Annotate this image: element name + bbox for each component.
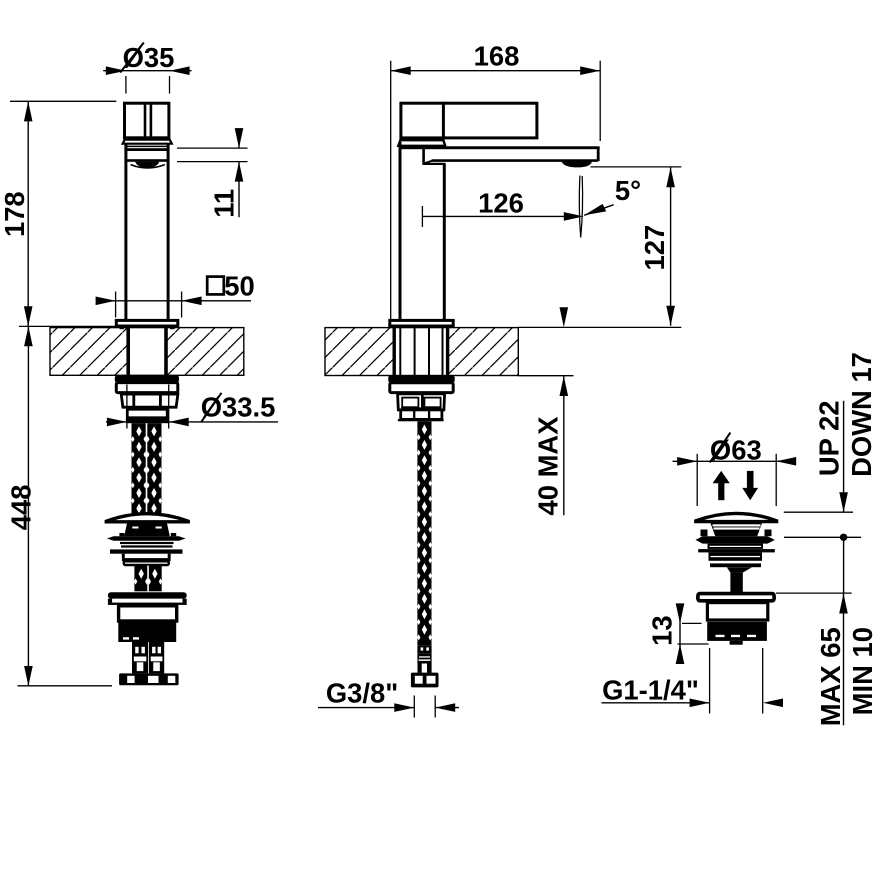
body right edge side: [443, 164, 446, 319]
svg-text:G1-1/4": G1-1/4": [602, 675, 699, 706]
hex nut window 3: [168, 676, 176, 683]
neck thin line: [125, 145, 170, 147]
40MAX top arrowhead: [560, 307, 569, 327]
178 bottom arrowhead: [24, 306, 33, 326]
countertop outline: [50, 328, 244, 376]
plug collar: [124, 523, 170, 536]
50 left extension tick: [115, 292, 117, 318]
spout slab bottom edge front: [125, 159, 170, 162]
Ø33.5 slash overstrike: [201, 393, 222, 423]
fitting ferrule: [417, 653, 431, 663]
thread mark 2: [731, 635, 740, 637]
hex bottom band: [398, 419, 444, 421]
Ø63 right arrowhead: [776, 457, 796, 466]
sink bottom extension line: [776, 592, 852, 594]
svg-text:DOWN 17: DOWN 17: [846, 352, 877, 477]
11 upper extension line: [177, 147, 248, 149]
drain threaded section side: [707, 622, 767, 641]
svg-text:UP 22: UP 22: [813, 400, 844, 476]
svg-text:MIN 10: MIN 10: [847, 627, 878, 715]
waste top flange: [107, 536, 186, 540]
Ø33.5 right arrowhead: [169, 418, 189, 427]
G1-1/4 right extension line: [762, 648, 764, 714]
448 bottom arrowhead: [24, 666, 33, 686]
waste body side right: [168, 554, 171, 559]
drain flange cap left: [108, 599, 112, 603]
13 dimension line: [679, 605, 681, 663]
braided tail section: [134, 566, 161, 592]
waste body side left: [122, 554, 125, 559]
svg-text:5°: 5°: [615, 175, 641, 206]
body right edge front: [167, 144, 170, 320]
link line to MAX dimension: [843, 541, 845, 594]
supply nut side view: [398, 394, 445, 410]
flange nut side view: [390, 383, 453, 393]
drain body cylinder: [119, 606, 177, 621]
svg-text:MAX 65: MAX 65: [815, 627, 846, 726]
11 upper arrow stem: [238, 130, 240, 148]
50 right extension tick: [181, 292, 183, 318]
svg-text:178: 178: [0, 191, 30, 237]
Ø63 left arrowhead: [677, 457, 697, 466]
rubber washer front: [115, 376, 179, 382]
collar ear right: [765, 530, 772, 537]
Ø63 dimension line: [673, 460, 794, 462]
crimp slit left: [421, 647, 424, 650]
hex collar top band: [126, 407, 169, 410]
Ø33.5 left arrowhead: [107, 418, 127, 427]
counter top extension to 127: [518, 326, 681, 328]
plug collar slit right: [156, 527, 162, 529]
5° arrowhead: [584, 204, 606, 215]
counter bottom extension to 40MAX: [518, 375, 573, 377]
hex nut window 2: [148, 676, 159, 683]
collar ear left: [701, 530, 708, 537]
spout slab top edge front: [125, 148, 170, 151]
Ø35 left extension tick: [125, 76, 127, 94]
waste lower band: [710, 563, 761, 567]
11 upper arrowhead: [235, 128, 244, 148]
spout underside chamfer: [423, 161, 432, 164]
waste ring upper: [120, 542, 174, 544]
handle block side view: [401, 103, 537, 138]
50 dimension line: [97, 300, 252, 302]
40MAX dimension line: [563, 376, 565, 515]
13 bottom extension line: [678, 643, 709, 645]
168 left arrowhead: [391, 66, 411, 75]
pop-up plug umbrella dome: [106, 514, 188, 522]
shank hole left edge: [393, 328, 396, 376]
13 top extension line: [682, 622, 702, 624]
G3/8 right arrowhead: [435, 703, 455, 712]
Ø35 dimension line: [103, 70, 191, 72]
handle slot line left: [144, 103, 147, 138]
handle slot line right: [150, 103, 153, 138]
Ø35 slash overstrike: [120, 43, 144, 73]
hex facet right: [428, 411, 430, 420]
supply nut lower band: [401, 407, 441, 409]
countertop outline middle: [325, 328, 518, 376]
handle block front view: [125, 103, 169, 138]
plug ear right: [171, 533, 176, 536]
448 top arrowhead: [24, 326, 33, 346]
Ø35 right arrowhead: [170, 66, 190, 75]
fitting stem right: [427, 664, 432, 673]
11 lower extension line: [177, 161, 248, 163]
supply nut center bar: [421, 394, 424, 410]
handle collar side: [398, 140, 445, 146]
shank stud line: [428, 328, 430, 376]
band 2 stripe: [710, 546, 762, 547]
13 top arrowhead: [676, 603, 685, 623]
flange plane extension line: [784, 536, 861, 538]
threaded shank right edge: [164, 328, 168, 376]
hex nut window 1: [127, 676, 134, 683]
waste thin wide bar: [698, 549, 775, 552]
178 top extension line: [10, 100, 116, 102]
waste ring lower: [121, 545, 173, 547]
countertop hatch right part: [166, 328, 244, 376]
50 left arrowhead: [96, 297, 116, 306]
spout underside line: [432, 159, 598, 162]
126 dimension line: [422, 215, 566, 217]
thread mark 1: [716, 635, 725, 637]
126 left extension tick: [421, 206, 423, 227]
shank hole right edge: [446, 328, 449, 376]
spout top surface: [399, 146, 599, 149]
drain bottom tab: [730, 641, 743, 645]
svg-text:11: 11: [208, 189, 239, 218]
448 bottom extension line: [18, 685, 113, 687]
fitting stem left: [418, 664, 422, 673]
base plate left foot: [120, 327, 125, 329]
svg-text:126: 126: [478, 187, 524, 218]
plug cap collar: [710, 522, 763, 536]
square symbol of □50: [207, 277, 224, 295]
drain tail legs: [132, 642, 148, 673]
hose crimp band front: [126, 418, 169, 424]
drain flange bottom line: [108, 603, 187, 605]
stack stripe: [711, 556, 761, 557]
base plate right foot: [170, 327, 175, 329]
ferrule line 2: [419, 659, 431, 661]
hex nut side view: [401, 410, 442, 420]
G3/8 nut: [411, 673, 439, 688]
waste flange band: [696, 536, 775, 543]
crimp slit right: [426, 647, 429, 650]
Ø63 slash overstrike: [710, 433, 731, 463]
svg-text:40 MAX: 40 MAX: [532, 416, 563, 516]
handle front face line: [442, 102, 445, 140]
water stream: [579, 176, 582, 238]
svg-text:50: 50: [224, 270, 254, 301]
svg-text:448: 448: [6, 485, 37, 531]
supply nut window left: [402, 398, 418, 408]
G1-1/4 right arrowhead: [763, 699, 783, 708]
hex facet left: [413, 411, 415, 420]
MAX65 dimension line: [843, 594, 845, 726]
5° leader line: [584, 205, 613, 216]
drain threaded section: [118, 622, 176, 642]
127 dimension line: [670, 167, 672, 326]
Ø63 left extension line: [696, 454, 698, 506]
faucet base plate front: [116, 320, 178, 326]
168 dimension line: [391, 70, 601, 72]
countertop hatch left part: [50, 328, 128, 376]
pop-up lever bar: [110, 549, 183, 553]
G1-1/4 dimension line: [602, 702, 710, 704]
thread groove mark 2: [133, 637, 139, 639]
cap top extension line: [784, 511, 853, 513]
mounting flange nut front: [116, 383, 178, 393]
11 lower arrow stem: [238, 162, 240, 218]
drain flange dark bar: [108, 592, 187, 598]
G3/8 right extension tick: [434, 696, 436, 718]
40MAX bottom arrowhead: [560, 376, 569, 396]
drain cylinder side: [707, 603, 767, 620]
448 top extension line: [19, 325, 117, 327]
Ø35 right extension tick: [169, 76, 171, 94]
notch vertical under handle: [422, 149, 425, 164]
G3/8 left extension tick: [413, 696, 415, 718]
Ø63 right extension line: [775, 454, 777, 506]
body left edge side: [399, 142, 402, 319]
G1-1/4 left extension line: [709, 648, 711, 714]
plug cap dome: [696, 513, 777, 521]
G3/8 dimension line right: [435, 707, 459, 709]
countertop hatch middle-left: [325, 328, 394, 376]
hex nut white box front: [127, 409, 167, 417]
G1-1/4 left arrowhead: [690, 699, 710, 708]
168 right arrowhead: [580, 66, 600, 75]
127 top arrowhead: [666, 167, 675, 187]
G3/8 dimension line left: [318, 707, 414, 709]
13 bottom arrowhead: [676, 644, 685, 664]
178 top arrowhead: [24, 101, 33, 121]
G3/8 nut window left: [415, 676, 423, 684]
notch horizontal line: [422, 163, 445, 165]
ferrule line 1: [419, 656, 430, 657]
waste stack band: [709, 552, 763, 560]
Ø33.5 left extension line: [126, 385, 128, 429]
base plate side view: [390, 320, 453, 326]
handle collar front: [123, 140, 172, 144]
supply nut window right: [424, 398, 440, 408]
spout aerator side: [562, 160, 592, 168]
50 right arrowhead: [182, 297, 202, 306]
178 dimension line: [27, 101, 29, 326]
body left edge front: [124, 144, 127, 320]
supply nut trapezoid front: [121, 394, 178, 407]
waste body dark band: [122, 558, 171, 561]
threaded shank left edge: [126, 328, 130, 376]
126 arrowhead: [564, 212, 584, 221]
shank stud line: [442, 328, 444, 376]
supply nut facet line left: [132, 394, 135, 407]
G3/8 left arrowhead: [394, 703, 414, 712]
plug ear left: [119, 533, 124, 536]
plug up arrow: [713, 471, 730, 483]
svg-text:168: 168: [474, 41, 520, 72]
plug down arrow: [747, 471, 754, 488]
MAX65 arrowhead: [839, 594, 848, 614]
thread mark 3: [747, 635, 756, 637]
svg-text:13: 13: [646, 615, 677, 645]
aerator arc front: [135, 162, 159, 169]
Ø33.5 dimension line: [106, 421, 278, 423]
plug collar slit left: [132, 527, 138, 529]
168 left extension line: [390, 61, 392, 319]
11 lower arrowhead: [235, 162, 244, 182]
127 bottom arrowhead: [666, 306, 675, 326]
448 dimension line: [27, 326, 29, 686]
drain bottom hex nut: [119, 673, 179, 685]
127 top extension line: [591, 166, 682, 168]
spout tip edge: [597, 147, 600, 162]
thread groove mark 1: [123, 637, 129, 639]
reference point dot: [840, 534, 847, 541]
Ø33.5 right extension line: [168, 385, 170, 429]
drain flange side: [698, 594, 774, 601]
braided supply hose side: [417, 421, 431, 645]
svg-text:G3/8": G3/8": [326, 677, 398, 708]
svg-text:127: 127: [639, 225, 670, 271]
plug stem: [730, 573, 742, 592]
plug stem cone: [727, 567, 752, 572]
supply nut facet line right: [159, 394, 162, 407]
drain flange cap right: [183, 599, 187, 603]
shank stud line: [414, 328, 416, 376]
washer side view: [388, 376, 454, 383]
collar stripe 2: [714, 527, 760, 529]
168 right extension line: [599, 61, 601, 141]
G3/8 nut window right: [427, 676, 436, 684]
hose crimp collar: [417, 645, 431, 653]
waste body lower white band: [124, 561, 169, 565]
up-down dimension line: [843, 401, 845, 512]
waste band 2: [708, 544, 764, 549]
Ø35 left arrowhead: [106, 66, 126, 75]
braided supply hose front: [132, 423, 162, 514]
up-down arrowhead: [839, 492, 848, 512]
collar stripe 1: [713, 524, 761, 526]
shank stud line: [399, 328, 401, 376]
svg-text:Ø35: Ø35: [123, 42, 175, 73]
countertop hatch middle-right: [448, 328, 518, 376]
